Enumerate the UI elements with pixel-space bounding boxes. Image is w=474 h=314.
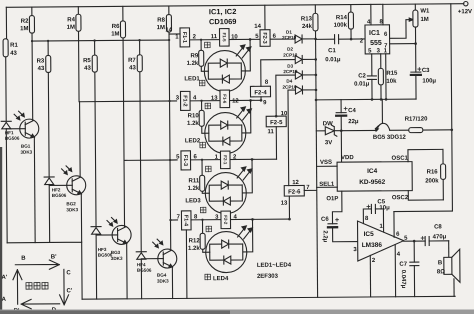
svg-text:F2-1: F2-1 [223,155,228,165]
op-amp IC5 LM386 [353,216,408,264]
node green label row4 [206,226,212,232]
resistor R3 [37,55,51,72]
svg-text:R16: R16 [427,169,439,175]
svg-text:C3: C3 [422,68,430,74]
inverter F2-5 [266,75,296,159]
diode D4 [282,78,316,94]
wire IC4 O1P output to C6 [326,191,342,224]
svg-text:LM386: LM386 [362,242,383,249]
node green label row3 [206,166,212,172]
wire 555 pin6 to W1 wiper [389,18,413,38]
svg-text:R14: R14 [336,15,348,21]
diode D1 [282,29,316,43]
capacitor C8 [421,224,449,245]
svg-text:12: 12 [292,180,299,186]
wire BG2 base lead [49,184,72,186]
svg-text:D3: D3 [287,64,293,69]
wire left ground link [7,242,82,300]
wire IC2 supply pin 14 [254,5,265,30]
svg-text:B: B [438,260,443,266]
svg-text:0.047μ: 0.047μ [400,270,406,289]
wire BG1 base lead [6,128,25,130]
resistor R13 [301,5,318,31]
node +12V label [458,9,472,15]
light arrows out of LED4 [238,226,253,239]
wire R4 column + row2 feed [78,6,176,102]
inverter F2-4 [250,60,295,107]
svg-text:R9: R9 [191,53,199,59]
svg-text:1M: 1M [67,25,75,31]
svg-text:IC1, IC2: IC1, IC2 [209,7,237,16]
svg-text:1M: 1M [20,26,28,32]
svg-text:C1: C1 [328,48,336,54]
svg-text:BG2: BG2 [66,201,76,206]
photodiode HF3 [91,226,113,257]
svg-text:3DK3: 3DK3 [157,279,169,284]
svg-text:1.2k: 1.2k [188,246,200,252]
svg-text:R6: R6 [112,24,120,30]
svg-text:R7: R7 [128,58,136,64]
node VDD label [341,155,354,161]
svg-text:R11: R11 [188,178,199,184]
wire R7/HF4 column [140,40,142,298]
svg-text:R12: R12 [189,238,201,244]
svg-text:BG1: BG1 [21,144,31,149]
svg-text:IC5: IC5 [364,231,375,238]
svg-text:43: 43 [129,65,136,71]
svg-text:1M: 1M [420,17,428,23]
svg-text:F2-3: F2-3 [261,32,267,43]
wire row1 line (pin2 to F2-3) [190,34,261,41]
light arrows into BG2 [62,166,72,175]
svg-text:43: 43 [84,66,91,72]
node junction row3 LED return [251,158,254,161]
svg-text:C2: C2 [358,73,366,79]
svg-text:10k: 10k [386,79,397,85]
svg-text:3DK3: 3DK3 [20,150,32,155]
wire F2-3 output to D1 [270,38,295,40]
node red label row1 [199,80,205,86]
capacitor C4 [336,100,359,163]
zener diode DW [316,121,341,146]
svg-text:2CP10: 2CP10 [282,35,297,40]
svg-text:D2: D2 [287,47,293,52]
svg-text:11: 11 [267,129,274,135]
svg-text:HF3: HF3 [98,247,107,252]
svg-text:A: A [2,297,7,303]
svg-text:D4: D4 [286,79,292,84]
svg-text:IC4: IC4 [367,168,378,175]
wire BG3 emitter down [126,243,128,298]
scan diagram inset: arrow B [15,260,59,270]
diode D3 [283,63,316,79]
node junction row1 LED return [249,38,252,41]
capacitor C3 [411,67,437,99]
resistor R4 [67,14,81,31]
transistor BG3 [111,225,132,261]
photodiode HF4 [136,252,152,273]
svg-text:VSS: VSS [320,160,332,166]
wire IC1 ground stub to rail [185,230,188,298]
svg-text:C6: C6 [321,217,329,223]
LED emitter LED2 [185,100,251,154]
inverter F1-4 [177,211,191,230]
svg-text:IC1: IC1 [369,30,380,37]
svg-text:470μ: 470μ [433,234,447,240]
svg-text:F2-6: F2-6 [288,189,301,195]
capacitor C2 [354,54,377,100]
transistor BG5 [373,99,407,141]
svg-text:11: 11 [211,34,218,40]
svg-text:F1-6: F1-6 [222,94,227,104]
resistor R2 [20,16,34,34]
inverter F2-2 (pins 3-4) [215,211,237,229]
scan diagram inset: danger zone text [26,282,48,289]
svg-text:3DK3: 3DK3 [66,207,78,212]
resistor R8 [157,15,172,33]
svg-text:OSC1: OSC1 [391,156,408,162]
svg-text:2CP10: 2CP10 [282,85,297,90]
svg-text:VDD: VDD [341,155,354,161]
scan diagram inset: arrow D [21,299,60,309]
svg-text:F2-2: F2-2 [223,215,228,225]
resistor R11 [187,160,209,194]
light arrows into BG1 [14,111,24,120]
svg-text:R10: R10 [188,113,200,119]
wire row3 line (pin6 to F2-5 pin11) [190,154,276,161]
svg-text:HF2: HF2 [52,187,61,192]
wire BG4 emitter down [171,267,173,298]
svg-text:2CP10: 2CP10 [283,69,298,74]
wire IC5 pin6 supply [393,212,395,238]
scan artifact edge strips [0,147,474,314]
svg-text:OSC2: OSC2 [392,195,409,201]
node junction row4 LED return [251,218,254,221]
svg-text:F2-4: F2-4 [254,90,267,96]
wire R8 column input bus [169,6,178,251]
light arrows out of LED3 [237,167,252,180]
svg-text:100μ: 100μ [422,78,436,84]
capacitor C1 [316,34,366,63]
capacitor C5 [363,199,390,232]
node red label row3 [200,207,206,213]
wire R3/HF2 column [48,41,50,242]
svg-text:C': C' [67,288,73,294]
photodiode HF1 [1,121,20,141]
svg-text:24k: 24k [302,24,313,30]
wire left column (R1/HF1 branch) [5,7,8,243]
scan diagram inset labels [1,254,73,314]
svg-text:LED1~LED4: LED1~LED4 [257,263,292,269]
svg-text:B': B' [51,254,57,260]
svg-text:F1-5: F1-5 [222,33,227,43]
inverter F1-6 (pins 13-12) [211,90,240,108]
svg-text:F2-5: F2-5 [270,120,283,126]
svg-text:F1-1: F1-1 [181,32,187,43]
resistor R17 [390,116,452,132]
speaker B [437,241,460,297]
svg-text:CD1069: CD1069 [209,17,237,26]
potentiometer W1 [413,4,431,72]
wire R6 column + row3 feed [123,6,178,227]
svg-text:C8: C8 [434,224,442,230]
resistor R1 [3,39,18,57]
resistor R6 [111,21,125,38]
resistor R16 [425,149,446,200]
transistor BG4 [157,249,177,284]
svg-text:14: 14 [254,24,261,30]
wire top +12V rail [6,1,468,9]
svg-text:A': A' [1,275,7,281]
inverter F2-6 [280,90,317,221]
svg-text:R5: R5 [83,58,91,64]
resistor R10 [187,101,209,134]
svg-text:0.01μ: 0.01μ [354,81,370,87]
resistor R7 [128,55,142,72]
svg-text:BG506: BG506 [52,193,67,198]
LED emitter LED4 [205,219,252,282]
inverter F2-3 [255,30,276,47]
svg-text:22μ: 22μ [348,119,359,125]
svg-text:2CP10: 2CP10 [283,53,298,58]
svg-text:LED4: LED4 [213,276,229,282]
wire mid horizontal line to BG5/R17 [341,129,376,131]
svg-text:B: B [21,256,26,262]
LED emitter LED1 [184,39,250,92]
wire row4 line (pin8 to F2-6 pin13) [191,214,290,221]
op-amp timer IC1 555 [360,19,390,54]
svg-text:10: 10 [281,111,288,117]
svg-text:LED3: LED3 [185,198,201,204]
svg-text:D1: D1 [286,30,292,35]
svg-text:F1-4: F1-4 [182,215,188,227]
IC4 KD-9562 [337,162,412,192]
node red label row4 [205,274,211,280]
resistor R5 [83,55,97,72]
svg-text:1.2k: 1.2k [187,121,199,127]
photodiode HF2 [44,177,67,198]
svg-text:1.2k: 1.2k [187,61,199,67]
svg-text:DW: DW [323,121,333,127]
resistor R15 [378,54,398,100]
svg-text:F1-3: F1-3 [182,155,188,166]
svg-text:BG5 3DG12: BG5 3DG12 [373,135,407,141]
svg-text:0.01μ: 0.01μ [325,57,341,63]
node red label row2 [200,142,206,148]
svg-text:3DK3: 3DK3 [111,256,123,261]
svg-text:BG506: BG506 [137,268,152,273]
svg-text:BG4: BG4 [157,273,167,278]
resistor R14 [333,5,353,40]
wire IC5 pin2 ground [369,255,371,296]
svg-text:LED2: LED2 [185,138,201,144]
svg-text:W1: W1 [420,8,430,14]
svg-text:F1-2: F1-2 [182,95,188,106]
wire bottom ground rail [82,296,455,299]
svg-text:43: 43 [38,66,45,72]
resistor R9 [186,40,208,72]
LED emitter LED3 [185,159,252,214]
svg-text:8Ω: 8Ω [437,269,445,275]
light arrows into BG3 [107,217,117,226]
wire R2 column + row1 feed line [32,6,170,121]
svg-text:SEL1: SEL1 [319,182,335,188]
svg-text:BG3: BG3 [111,250,121,255]
svg-text:KD-9562: KD-9562 [359,179,385,186]
svg-text:R2: R2 [21,19,29,25]
wire oscillator common rail [315,98,416,101]
wire R5/HF3 column [95,41,97,299]
capacitor C6 [321,217,358,243]
svg-text:1M: 1M [157,25,165,31]
svg-text:13: 13 [281,201,288,207]
wire 555 pin4 pin8 supply stubs [371,4,383,25]
svg-text:R3: R3 [37,59,45,65]
node green label row1 [205,42,211,48]
inverter F1-5 (pins 11-10) [211,28,239,46]
scan diagram inset: arrow C [59,269,68,305]
wire IC4 VSS pin [317,160,338,167]
svg-text:43: 43 [10,51,17,57]
wire IC5 output pin5 [404,240,426,243]
wire row2 line (pin4 to F2-4 pin9) [190,95,261,102]
svg-text:1M: 1M [111,31,119,37]
wire IC4 SEL1 pin [317,182,338,188]
svg-text:R17/120: R17/120 [405,116,428,122]
svg-text:200k: 200k [425,178,439,184]
inverter F1-3 [176,151,190,170]
wire BG2 collector up / emitter down [80,102,82,243]
transistor BG1 [20,119,39,155]
node junction row2 LED return [249,99,252,102]
svg-text:C4: C4 [348,108,356,114]
svg-text:+12V: +12V [458,9,472,15]
wire right supply bus [392,4,453,212]
inverter F2-1 (pins 1-2) [215,151,237,169]
svg-text:BG506: BG506 [5,136,20,141]
svg-text:12: 12 [232,98,239,104]
svg-text:2EF303: 2EF303 [257,274,279,280]
wire 555 pin7 to W1 bottom [390,42,417,45]
wire 555 pin1 down [385,54,387,99]
wire IC5 pin4 ground [394,245,396,297]
svg-text:R15: R15 [386,71,398,77]
svg-text:HF1: HF1 [5,130,14,135]
wire BG1 emitter down [33,137,36,242]
svg-text:1.2k: 1.2k [188,186,200,192]
resistor R12 [188,220,210,253]
node green label row2 [205,103,211,109]
wire main mid bus [314,31,319,298]
node LED type label [257,263,292,280]
svg-text:R4: R4 [67,17,75,23]
scan diagram inset: arrow A [13,270,22,305]
light arrows out of LED2 [237,107,252,120]
wire junction dots [31,39,204,223]
svg-text:R1: R1 [10,43,18,49]
light arrows out of LED1 [236,45,251,58]
svg-text:2.2μ: 2.2μ [322,230,328,242]
svg-text:14: 14 [165,28,172,34]
transistor BG2 [66,176,86,213]
diode D2 [283,46,316,63]
svg-text:HF4: HF4 [137,262,146,267]
svg-text:O1P: O1P [326,196,338,202]
svg-text:10: 10 [231,34,238,40]
wire BG4 base lead [141,258,163,260]
svg-text:R8: R8 [157,18,165,24]
svg-text:100k: 100k [334,23,348,29]
inverter F1-2 [176,91,190,110]
svg-text:LED1: LED1 [184,76,200,82]
inverter F1-1 [165,27,189,47]
svg-text:13: 13 [211,96,218,102]
svg-text:C: C [66,270,71,276]
svg-text:10μ: 10μ [379,205,390,211]
node IC1 IC2 CD1069 title [209,7,237,26]
capacitor C7 [399,241,419,297]
light arrows into BG4 [153,239,163,248]
wire BG3 base lead [96,234,117,236]
wire IC4 OSC1 loop through R16 [391,149,443,201]
svg-text:555: 555 [370,40,382,47]
svg-text:3V: 3V [325,140,332,146]
svg-text:R13: R13 [301,16,313,22]
svg-text:C7: C7 [399,262,407,268]
